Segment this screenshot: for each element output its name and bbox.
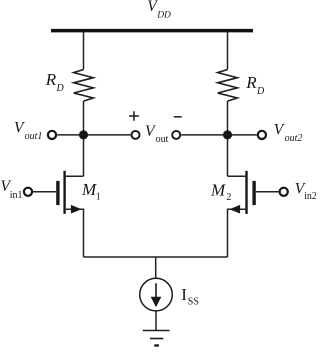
- source wire M1: [66, 209, 84, 257]
- gate bar M1: [56, 181, 59, 205]
- wire common source rail: [84, 256, 228, 258]
- ground: [143, 331, 170, 346]
- node X junction dot left: [79, 130, 88, 139]
- terminal Vout1: [48, 131, 56, 139]
- drain wire M2: [228, 175, 246, 177]
- svg-text:1: 1: [96, 192, 101, 203]
- gate wire M1: [33, 191, 56, 193]
- svg-text:2: 2: [226, 192, 231, 203]
- svg-text:R: R: [45, 70, 57, 89]
- wire current source to ground: [155, 311, 157, 331]
- transistor M2: [228, 171, 255, 257]
- gate bar M2: [252, 181, 255, 205]
- resistor R_D left: [74, 70, 94, 102]
- terminal Vin1: [24, 188, 32, 196]
- svg-text:out1: out1: [25, 131, 43, 142]
- svg-text:DD: DD: [156, 11, 171, 21]
- svg-text:in2: in2: [304, 191, 316, 202]
- svg-text:out: out: [156, 134, 169, 145]
- wire tail node to current source: [155, 257, 157, 278]
- wire VDD rail to R_D right: [227, 31, 229, 70]
- source arrow M1: [71, 205, 82, 214]
- wire Vout1 terminal to node X: [57, 134, 131, 136]
- wire Vout minus terminal to Vout2 terminal: [181, 134, 257, 136]
- VDD supply rail: [51, 29, 253, 33]
- wire R_D right to drain node: [227, 101, 229, 176]
- channel bar M2: [245, 171, 247, 214]
- svg-text:V: V: [274, 122, 285, 139]
- transistor M1: [58, 171, 84, 257]
- svg-text:M: M: [210, 181, 226, 200]
- node Y junction dot right: [223, 130, 232, 139]
- resistor R_D right: [218, 70, 238, 102]
- svg-text:M: M: [81, 180, 97, 199]
- source arrow M2: [229, 205, 240, 214]
- current source ISS: [140, 278, 173, 311]
- wire R_D left to drain node: [83, 101, 85, 176]
- svg-text:SS: SS: [188, 297, 199, 308]
- svg-text:R: R: [245, 73, 257, 92]
- svg-text:V: V: [145, 123, 156, 140]
- drain wire M1: [66, 175, 84, 177]
- source wire M2: [228, 209, 246, 257]
- terminal Vout minus: [172, 131, 180, 139]
- channel bar M1: [63, 171, 65, 214]
- terminal Vout plus: [132, 131, 140, 139]
- plus sign: [129, 111, 139, 121]
- wire VDD rail to R_D left: [83, 31, 85, 70]
- current source arrow: [155, 283, 157, 299]
- terminal Vout2: [258, 131, 266, 139]
- gate wire M2: [256, 191, 279, 193]
- svg-text:D: D: [256, 86, 265, 97]
- terminal Vin2: [280, 188, 288, 196]
- svg-text:V: V: [14, 120, 25, 137]
- svg-text:I: I: [181, 285, 187, 304]
- minus sign: [174, 116, 182, 118]
- svg-text:in1: in1: [10, 190, 23, 201]
- svg-text:out2: out2: [285, 133, 303, 144]
- svg-text:D: D: [56, 83, 65, 94]
